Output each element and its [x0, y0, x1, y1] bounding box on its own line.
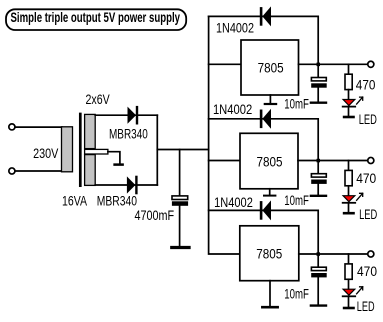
label 10mF (C3) [284, 193, 309, 208]
svg-text:1N4002: 1N4002 [213, 102, 252, 117]
wire bridge output to bus [157, 149, 208, 151]
ground (U2) [264, 189, 275, 196]
wire bus to U1 input [209, 63, 241, 65]
diode D5 1N4002 [260, 200, 271, 220]
capacitor C4 10mF [311, 267, 327, 277]
title box [6, 9, 186, 30]
ground (C2) [311, 101, 326, 103]
svg-text:LED: LED [357, 299, 375, 314]
regulator U1 7805 [241, 40, 299, 95]
label LED (LED2) [359, 207, 377, 222]
label 470 (R2) [356, 171, 376, 186]
label 1N4002 (D4) [213, 102, 252, 117]
transformer T1 secondary winding bottom [85, 155, 96, 186]
label LED (LED1) [359, 112, 377, 127]
svg-text:LED: LED [359, 112, 377, 127]
LED LED3 [343, 289, 356, 296]
wire U3 output [299, 253, 368, 255]
label 16VA [62, 194, 87, 209]
label 2x6V [86, 92, 110, 107]
wire C1 bottom lead [179, 206, 181, 246]
label 7805 (U2) [257, 155, 283, 170]
svg-text:7805: 7805 [256, 246, 282, 261]
label 10mF (C4) [284, 286, 309, 301]
svg-text:470: 470 [356, 171, 376, 186]
node C4 junction [317, 252, 321, 256]
capacitor C1 4700mF [172, 196, 188, 206]
label 7805 (U1) [258, 61, 284, 76]
label 470 (R1) [356, 77, 376, 92]
wire channel 1 diode branch [209, 16, 319, 64]
svg-text:MBR340: MBR340 [109, 127, 148, 142]
svg-text:230V: 230V [33, 146, 58, 161]
diode D1 MBR340 [128, 106, 139, 125]
wire LED3 to ground [348, 296, 350, 307]
wire LED1 to ground [348, 107, 350, 116]
svg-text:LED: LED [359, 207, 377, 222]
label 4700mF [135, 208, 175, 223]
ground (LED2) [344, 212, 353, 215]
label 230V [33, 146, 58, 161]
label MBR340 (D1) [109, 127, 148, 142]
wire R2 to LED2 [348, 186, 350, 196]
svg-text:4700mF: 4700mF [135, 208, 175, 223]
wire C4 bottom lead [317, 277, 319, 304]
diode D4 1N4002 [260, 109, 271, 129]
svg-text:2x6V: 2x6V [86, 92, 110, 107]
wire J2 to primary [16, 170, 63, 172]
svg-text:7805: 7805 [258, 61, 284, 76]
wire secondary bottom to bridge [95, 184, 157, 186]
LED LED2 [343, 196, 356, 203]
wire R3 top lead [348, 254, 350, 264]
wire C3 top lead [317, 161, 319, 174]
wire C4 top lead [317, 254, 319, 267]
ground (C1) [172, 246, 189, 249]
regulator U3 7805 [240, 226, 299, 281]
svg-text:1N4002: 1N4002 [216, 20, 254, 35]
ground (C4) [311, 304, 326, 306]
diode D2 MBR340 [127, 176, 138, 195]
svg-text:10mF: 10mF [284, 286, 309, 301]
wire LED2 to ground [348, 203, 350, 212]
wire C2 bottom lead [317, 88, 319, 102]
ground (U3) [262, 281, 277, 308]
output terminal channel 3 [368, 251, 374, 257]
label 1N4002 (D5) [214, 195, 253, 210]
label 470 (R3) [357, 264, 377, 279]
wire C3 bottom lead [317, 184, 319, 195]
resistor R3 470 [345, 264, 352, 279]
wire channel 3 diode branch [209, 210, 319, 254]
wire main bus [209, 16, 240, 254]
arrow (LED3) [357, 287, 363, 294]
transformer T1 primary winding [62, 127, 73, 172]
resistor R2 470 [345, 170, 352, 185]
resistor R1 470 [345, 74, 352, 89]
wire U1 output [299, 63, 368, 65]
svg-text:7805: 7805 [257, 155, 283, 170]
output terminal channel 2 [368, 157, 374, 163]
node C2 junction [317, 63, 321, 67]
wire R1 top lead [348, 64, 350, 74]
input terminal J1 [9, 124, 15, 130]
svg-text:MBR340: MBR340 [97, 194, 137, 209]
ground (U1) [265, 95, 276, 104]
wire U2 output [298, 160, 367, 162]
title text [11, 9, 181, 25]
svg-text:470: 470 [357, 264, 377, 279]
wire bus to U2 input [209, 160, 240, 162]
svg-text:16VA: 16VA [62, 194, 87, 209]
output terminal channel 1 [368, 61, 374, 67]
capacitor C2 10mF [311, 78, 327, 88]
svg-text:Simple triple output 5V power: Simple triple output 5V power supply [11, 9, 181, 25]
arrow (LED1) [357, 97, 363, 104]
wire R1 to LED1 [348, 90, 350, 100]
ground (LED1) [344, 116, 353, 119]
diode D3 1N4002 [260, 6, 271, 26]
label 10mF (C2) [284, 96, 309, 111]
arrow (LED2) [357, 193, 363, 200]
input terminal J2 [9, 168, 15, 174]
wire C1 top lead [179, 150, 181, 196]
transformer T1 secondary winding top [85, 114, 96, 148]
wire secondary top to bridge [95, 114, 157, 116]
ground (LED3) [344, 307, 353, 310]
svg-text:470: 470 [356, 77, 376, 92]
ground (C3) [311, 195, 326, 197]
svg-text:10mF: 10mF [284, 193, 309, 208]
label LED (LED3) [357, 299, 375, 314]
capacitor C3 10mF [311, 174, 327, 184]
ground (center tap) [115, 163, 123, 166]
svg-text:1N4002: 1N4002 [214, 195, 253, 210]
label 7805 (U3) [256, 246, 282, 261]
LED LED1 [343, 100, 356, 107]
wire R3 to LED3 [348, 279, 350, 289]
node C3 junction [317, 159, 321, 163]
wire J1 to primary [16, 126, 63, 128]
transformer core [79, 114, 82, 186]
wire R2 top lead [348, 161, 350, 171]
wire bridge right vertical [156, 115, 158, 185]
wire center tap to ground [108, 152, 120, 164]
svg-text:10mF: 10mF [284, 96, 309, 111]
regulator U2 7805 [240, 133, 298, 189]
transformer center tap [85, 149, 108, 154]
label 1N4002 (D3) [216, 20, 254, 35]
label MBR340 (D2) [97, 194, 137, 209]
wire channel 2 diode branch [209, 119, 319, 161]
wire C2 top lead [317, 64, 319, 77]
